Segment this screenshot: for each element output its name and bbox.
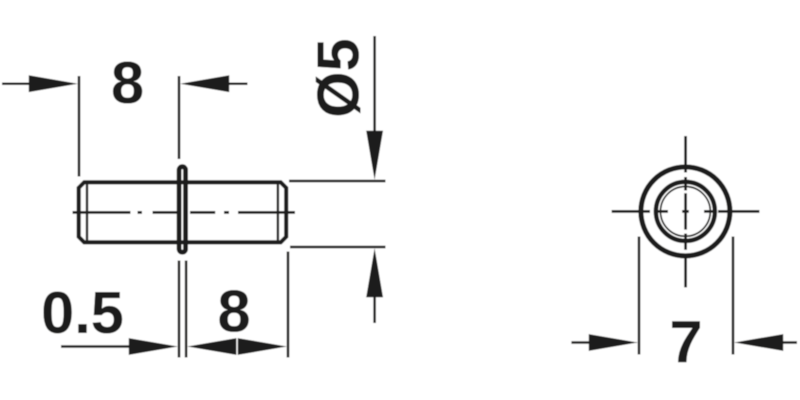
- dim 7: left arrowhead: [589, 334, 638, 351]
- dim 8 (bottom): right arrowhead: [238, 338, 287, 355]
- dim 8 (top): right extension line: [178, 76, 181, 159]
- dim 0.5: leader tail: [61, 345, 131, 348]
- dim 0.5: arrowhead: [129, 338, 178, 355]
- flange (collar): [179, 167, 186, 253]
- svg-text:8: 8: [217, 278, 250, 345]
- end view: vertical centerline: [684, 136, 687, 287]
- dim Ø5: upper dim line: [373, 36, 376, 132]
- dim 8 (top): left arrow tail: [2, 82, 30, 85]
- dim Ø5: lower dim line: [373, 296, 376, 323]
- dim 8 (top): right arrow tail: [229, 82, 248, 85]
- flange left extension line: [178, 261, 181, 358]
- left chamfer line: [86, 184, 88, 240]
- dim 7: left extension line: [638, 237, 641, 355]
- pin body outline (side view): [79, 182, 287, 242]
- end view: horizontal centerline: [612, 210, 760, 213]
- right chamfer line: [277, 184, 279, 240]
- dim 8 (top): right arrowhead: [180, 75, 229, 92]
- dim 7: right arrowhead: [734, 334, 783, 351]
- flange right extension line: [185, 261, 188, 358]
- end view: outer circle (flange): [641, 167, 730, 256]
- dim 8 (bottom): pin-end extension line: [287, 252, 290, 358]
- dim 8 (top): left arrowhead: [29, 75, 78, 92]
- dim 7: right extension line: [732, 237, 735, 355]
- dim Ø5: down arrowhead: [366, 131, 383, 180]
- svg-text:Ø5: Ø5: [305, 38, 372, 117]
- centerline of pin (side view): [73, 211, 296, 214]
- svg-text:8: 8: [111, 49, 144, 116]
- dim 7: left arrow tail: [571, 341, 590, 344]
- end view: inner chamfer circle: [661, 187, 711, 237]
- dim Ø5: up arrowhead: [366, 248, 383, 297]
- svg-text:7: 7: [669, 308, 702, 375]
- dim Ø5: top extension line: [289, 180, 386, 183]
- end view: middle circle (pin body): [656, 182, 715, 241]
- svg-text:0.5: 0.5: [41, 279, 124, 346]
- dim 7: right arrow tail: [781, 341, 797, 344]
- dim 8 (top): left extension line: [78, 76, 81, 177]
- dim 8 (bottom): left arrowhead: [187, 338, 236, 355]
- dim Ø5: bottom extension line: [290, 246, 386, 249]
